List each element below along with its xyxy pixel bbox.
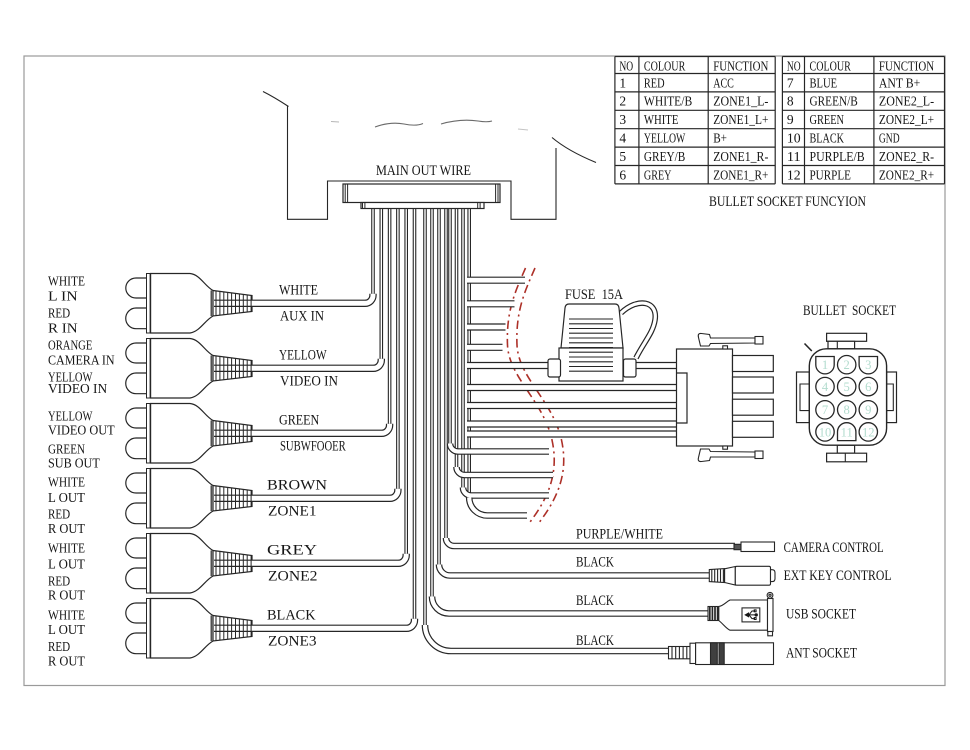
svg-text:WHITE: WHITE xyxy=(644,112,679,127)
power block wire 4 xyxy=(467,420,680,427)
socket hole 2 xyxy=(838,356,856,374)
cut stub wire xyxy=(463,488,549,496)
svg-text:ZONE1_R+: ZONE1_R+ xyxy=(713,167,768,182)
svg-text:GREY/B: GREY/B xyxy=(644,149,685,164)
svg-text:YELLOW: YELLOW xyxy=(279,348,327,364)
bundle vertical (BLACK/ZONE3) xyxy=(413,206,416,620)
svg-text:11: 11 xyxy=(787,149,801,164)
RCA pair connector 5 (GREY/ZONE2) xyxy=(126,534,252,594)
svg-text:ZONE3: ZONE3 xyxy=(268,634,317,650)
svg-text:1: 1 xyxy=(822,358,828,372)
svg-text:PURPLE/WHITE: PURPLE/WHITE xyxy=(576,527,663,543)
ant socket plug xyxy=(669,643,774,665)
svg-text:RED: RED xyxy=(48,507,70,522)
svg-text:5: 5 xyxy=(844,380,850,394)
power block bottom latch xyxy=(698,446,763,462)
ext key control plug xyxy=(709,566,775,585)
svg-text:ZONE1_R-: ZONE1_R- xyxy=(713,149,769,164)
RCA pair connector 6 (BLACK/ZONE3) xyxy=(126,599,252,659)
svg-text:R OUT: R OUT xyxy=(48,654,86,669)
svg-text:PURPLE/B: PURPLE/B xyxy=(810,149,865,164)
svg-text:R IN: R IN xyxy=(48,321,78,336)
svg-text:6: 6 xyxy=(619,167,626,182)
socket hole 1 xyxy=(816,357,834,374)
drawing border frame xyxy=(24,56,945,686)
svg-text:10: 10 xyxy=(787,131,801,146)
BLACK ext key control wire xyxy=(439,565,712,576)
svg-text:3: 3 xyxy=(865,358,871,372)
bullet socket body xyxy=(809,349,886,445)
svg-text:4: 4 xyxy=(619,131,626,146)
socket hole 8 xyxy=(838,401,856,419)
usb socket plug xyxy=(708,592,773,635)
wire GREY/ZONE2 xyxy=(214,554,406,564)
bullet socket bottom tabs xyxy=(837,445,854,453)
svg-text:3: 3 xyxy=(619,112,626,127)
RCA pair connector 3 (GREEN/SUBWOOFER) xyxy=(126,404,252,464)
svg-text:6: 6 xyxy=(865,380,871,394)
svg-text:SUB OUT: SUB OUT xyxy=(48,456,100,471)
svg-text:9: 9 xyxy=(865,403,871,417)
svg-text:L IN: L IN xyxy=(48,289,78,304)
cut stub wire xyxy=(469,498,527,516)
bundle verticals for bottom leads xyxy=(445,206,448,538)
svg-text:CAMERA IN: CAMERA IN xyxy=(48,353,115,368)
svg-text:9: 9 xyxy=(787,112,794,127)
wire GREEN/SUBWOOFER xyxy=(214,424,390,434)
svg-text:ZONE1_L-: ZONE1_L- xyxy=(713,94,769,109)
svg-text:BLACK: BLACK xyxy=(810,131,845,146)
svg-text:BLACK: BLACK xyxy=(576,593,614,609)
wire WHITE/AUX IN xyxy=(214,294,373,304)
RCA pair connector 2 (YELLOW/VIDEO IN) xyxy=(126,339,252,399)
BLACK usb socket wire xyxy=(432,597,710,614)
bullet socket left tab inner xyxy=(800,384,809,411)
RCA pair connector 1 (WHITE/AUX IN) xyxy=(126,274,252,334)
svg-text:GREEN: GREEN xyxy=(48,442,85,457)
svg-text:GREEN: GREEN xyxy=(810,112,845,127)
svg-text:R OUT: R OUT xyxy=(48,521,86,536)
socket hole 6 xyxy=(859,377,877,395)
socket hole 12 xyxy=(859,423,877,441)
svg-text:B+: B+ xyxy=(713,131,727,146)
cut stub wire xyxy=(450,444,549,452)
cut stub wire xyxy=(467,323,506,330)
wire BLACK/ZONE3 xyxy=(214,619,415,629)
bundle vertical (WHITE/AUX IN) xyxy=(372,206,375,295)
cut stub wire xyxy=(467,430,680,437)
power block wire 2 xyxy=(467,384,680,391)
svg-text:ZONE2: ZONE2 xyxy=(268,569,318,585)
PURPLE/WHITE camera control wire xyxy=(446,538,735,546)
cut stub wire xyxy=(457,467,554,475)
camera control plug xyxy=(734,542,775,552)
usb trident symbol xyxy=(745,610,757,620)
power block wire 3 xyxy=(467,402,680,409)
socket hole 10 xyxy=(816,423,834,441)
svg-text:VIDEO IN: VIDEO IN xyxy=(280,374,338,390)
svg-text:COLOUR: COLOUR xyxy=(644,58,685,73)
svg-text:GREY: GREY xyxy=(644,167,672,182)
svg-text:ACC: ACC xyxy=(713,75,734,90)
bundle vertical (BROWN/ZONE1) xyxy=(397,206,400,490)
svg-text:R OUT: R OUT xyxy=(48,588,86,603)
svg-text:GREEN/B: GREEN/B xyxy=(810,94,858,109)
svg-text:L OUT: L OUT xyxy=(48,490,86,505)
svg-text:7: 7 xyxy=(822,403,828,417)
bundle vertical (GREY/ZONE2) xyxy=(405,206,408,555)
svg-text:8: 8 xyxy=(844,403,850,417)
svg-text:5: 5 xyxy=(619,149,626,164)
svg-text:ZONE2_L-: ZONE2_L- xyxy=(879,94,935,109)
svg-text:FUNCTION: FUNCTION xyxy=(713,58,768,73)
socket hole 7 xyxy=(816,401,834,419)
fuse holder loop lead xyxy=(621,303,655,358)
red loom wrap dash-dot curve xyxy=(507,268,563,522)
BLACK ant socket wire xyxy=(425,625,672,651)
RCA pair connector 4 (BROWN/ZONE1) xyxy=(126,469,252,529)
svg-text:USB SOCKET: USB SOCKET xyxy=(786,607,856,623)
svg-text:ANT B+: ANT B+ xyxy=(879,75,920,90)
svg-text:BULLET SOCKET: BULLET SOCKET xyxy=(803,303,896,319)
svg-text:RED: RED xyxy=(644,75,665,90)
svg-text:11: 11 xyxy=(841,425,853,439)
svg-text:BLACK: BLACK xyxy=(576,633,614,649)
socket hole 9 xyxy=(859,401,877,419)
svg-text:ZONE1: ZONE1 xyxy=(268,504,317,520)
socket hole 5 xyxy=(838,377,856,395)
svg-text:VIDEO OUT: VIDEO OUT xyxy=(48,423,115,438)
power block left recess xyxy=(677,373,688,423)
svg-text:SUBWFOOER: SUBWFOOER xyxy=(280,439,346,455)
svg-text:BROWN: BROWN xyxy=(267,478,328,494)
svg-text:ZONE2_L+: ZONE2_L+ xyxy=(879,112,934,127)
svg-text:GREY: GREY xyxy=(267,543,318,559)
svg-text:NO: NO xyxy=(619,58,633,73)
svg-text:BULLET SOCKET FUNCYION: BULLET SOCKET FUNCYION xyxy=(709,194,866,210)
bundle vertical (GREEN/SUBWOOFER) xyxy=(388,206,391,425)
bullet socket function table xyxy=(615,57,945,184)
fuse wire ACC/B+ xyxy=(467,362,680,369)
svg-text:EXT KEY CONTROL: EXT KEY CONTROL xyxy=(784,568,892,584)
svg-text:4: 4 xyxy=(822,380,829,394)
main out wire connector housing xyxy=(343,184,500,203)
svg-text:7: 7 xyxy=(787,75,794,90)
bundle vertical (YELLOW/VIDEO IN) xyxy=(380,206,383,360)
wire BROWN/ZONE1 xyxy=(214,489,398,499)
svg-text:GREEN: GREEN xyxy=(279,413,320,429)
svg-text:WHITE: WHITE xyxy=(279,283,318,299)
svg-text:L OUT: L OUT xyxy=(48,557,86,572)
head unit chassis outline sketch xyxy=(263,92,596,220)
svg-text:NO: NO xyxy=(787,58,801,73)
svg-text:FUNCTION: FUNCTION xyxy=(879,58,934,73)
svg-text:BLACK: BLACK xyxy=(576,555,614,571)
cut stub wire xyxy=(467,277,525,284)
svg-text:10: 10 xyxy=(819,425,832,439)
bundle vertical wires (cut stub group) xyxy=(449,206,452,444)
svg-text:WHITE/B: WHITE/B xyxy=(644,94,692,109)
bullet socket latch tick xyxy=(805,344,812,352)
svg-text:ZONE2_R-: ZONE2_R- xyxy=(879,149,935,164)
bullet socket right tab xyxy=(887,372,897,423)
power block top latch xyxy=(698,333,763,349)
svg-text:AUX IN: AUX IN xyxy=(280,309,324,325)
bullet socket top tabs xyxy=(827,333,867,341)
bullet socket left tab xyxy=(797,372,810,423)
svg-text:GND: GND xyxy=(879,131,900,146)
svg-text:RED: RED xyxy=(48,639,70,654)
cut stub wire xyxy=(467,300,515,307)
svg-text:ORANGE: ORANGE xyxy=(48,338,92,353)
svg-text:RED: RED xyxy=(48,574,70,589)
socket hole 4 xyxy=(816,377,834,395)
svg-text:COLOUR: COLOUR xyxy=(810,58,851,73)
svg-text:12: 12 xyxy=(787,167,801,182)
svg-text:ZONE2_R+: ZONE2_R+ xyxy=(879,167,934,182)
svg-text:CAMERA CONTROL: CAMERA CONTROL xyxy=(784,540,884,556)
svg-text:ZONE1_L+: ZONE1_L+ xyxy=(713,112,768,127)
svg-text:PURPLE: PURPLE xyxy=(810,167,851,182)
svg-text:L OUT: L OUT xyxy=(48,622,86,637)
svg-text:WHITE: WHITE xyxy=(48,541,85,556)
wire YELLOW/VIDEO IN xyxy=(214,359,381,369)
socket hole 11 xyxy=(838,423,856,441)
svg-text:BLACK: BLACK xyxy=(267,608,316,624)
svg-text:BLUE: BLUE xyxy=(810,75,838,90)
fuse holder FUSE 15A xyxy=(548,304,636,381)
svg-text:2: 2 xyxy=(619,94,626,109)
svg-text:YELLOW: YELLOW xyxy=(48,409,92,424)
cut stub wire xyxy=(467,344,503,351)
power block pins xyxy=(733,356,774,372)
svg-text:MAIN OUT WIRE: MAIN OUT WIRE xyxy=(376,163,471,179)
svg-text:WHITE: WHITE xyxy=(48,608,85,623)
svg-text:1: 1 xyxy=(619,75,626,90)
power block connector body xyxy=(677,349,733,446)
svg-text:FUSE 15A: FUSE 15A xyxy=(565,287,623,303)
socket hole 3 xyxy=(859,357,877,374)
svg-text:WHITE: WHITE xyxy=(48,274,85,289)
svg-text:WHITE: WHITE xyxy=(48,475,85,490)
svg-text:VIDEO IN: VIDEO IN xyxy=(48,381,107,396)
svg-text:ANT SOCKET: ANT SOCKET xyxy=(786,646,857,662)
svg-text:8: 8 xyxy=(787,94,794,109)
svg-text:YELLOW: YELLOW xyxy=(644,131,686,146)
svg-text:12: 12 xyxy=(862,425,875,439)
svg-text:RED: RED xyxy=(48,306,70,321)
bullet socket right tab inner xyxy=(887,384,894,411)
main out wire connector strip xyxy=(361,203,484,209)
svg-text:2: 2 xyxy=(844,358,850,372)
